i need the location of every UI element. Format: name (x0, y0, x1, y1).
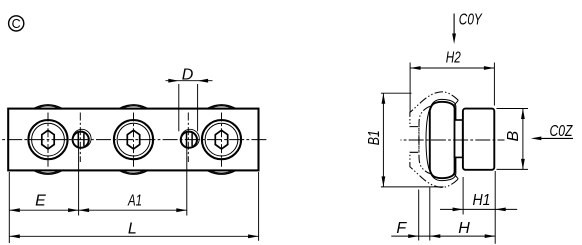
svg-text:E: E (35, 193, 46, 210)
svg-text:B: B (505, 131, 522, 142)
dimension D line with outside arrows (166, 80, 213, 82)
pin P2 vertical centerline (187, 113, 189, 163)
dimension B1 line (382, 93, 384, 187)
screw M3 inner circle (205, 123, 238, 156)
pin P2 eccentric bushing (thin) (181, 129, 200, 148)
front view horizontal centerline (1, 139, 268, 141)
load direction arrow C0Z (541, 137, 573, 139)
dimension H2 extension lines (409, 63, 411, 113)
dimension B extension lines (497, 108, 529, 110)
dimension L line (9, 235, 258, 237)
dimension L extension line (right) (258, 172, 260, 241)
dimension E line (9, 209, 78, 211)
screw M1 outer circle (28, 120, 67, 159)
pin P2 slot chords (186, 133, 188, 147)
pin P1 eccentric bushing (thin) (73, 129, 92, 148)
pin P1 circle (73, 132, 89, 148)
screw M1 inner circle (32, 123, 65, 156)
dimension H1 line with outside arrows (440, 208, 517, 210)
roller wheel arcs behind plate, screw 1 (34, 105, 62, 174)
screw M1 hex socket (42, 130, 54, 149)
roller crown silhouette (thin outline) (426, 99, 456, 180)
side view horizontal centerline (401, 139, 505, 141)
svg-text:B1: B1 (366, 130, 383, 145)
view label C (circled) (9, 16, 24, 31)
svg-text:H: H (458, 220, 470, 237)
svg-text:C0Y: C0Y (459, 12, 483, 29)
screw M3 outer circle (202, 120, 241, 159)
screw M1 vertical centerline (47, 113, 49, 167)
dimension H2 line (410, 67, 494, 69)
load direction arrow C0Y (453, 14, 455, 36)
screw M2 hex socket (127, 130, 139, 149)
pin P1 vertical centerline (79, 113, 81, 163)
dimension F extension lines (418, 190, 420, 241)
dimension B line (522, 109, 524, 170)
pin P1 slot chords (77, 133, 79, 147)
svg-text:D: D (182, 67, 194, 84)
dimension B1 extension lines (381, 92, 412, 94)
svg-text:C0Z: C0Z (550, 123, 574, 140)
svg-text:H2: H2 (446, 50, 461, 67)
dimension E extension line (left, shared with L) (8, 172, 10, 243)
screw M3 hex socket (215, 130, 227, 149)
dimension A1 line (79, 209, 187, 211)
svg-text:A1: A1 (127, 193, 142, 210)
roller wheel side profile (430, 102, 455, 178)
screw M2 vertical centerline (133, 113, 135, 167)
rail mouth tip faces (phantom) (453, 100, 458, 179)
dimension F / H shared line (391, 235, 495, 237)
screw M2 outer circle (114, 120, 153, 159)
svg-text:C: C (12, 17, 21, 31)
roller wheel arcs behind plate, screw 2 (120, 105, 148, 174)
spacer bushing between wheel and bar (455, 120, 463, 157)
rail profile inner contour (phantom) (419, 106, 431, 174)
pin P2 circle (181, 132, 197, 148)
bar end (side view) (463, 109, 494, 170)
rail profile outer contour (phantom) (410, 92, 458, 187)
mounting plate (front view) (8, 109, 258, 171)
svg-text:H1: H1 (473, 192, 491, 209)
roller wheel arcs behind plate, screw 3 (208, 105, 236, 174)
shared extension line E/A1 (78, 148, 80, 216)
svg-text:L: L (128, 220, 137, 237)
screw M2 inner circle (117, 123, 150, 156)
svg-text:F: F (396, 220, 407, 237)
dimension A1 extension line (right) (186, 148, 188, 216)
dimension H1 extension lines (462, 177, 464, 215)
dimension D extension lines (178, 84, 180, 131)
screw M3 vertical centerline (221, 113, 223, 167)
